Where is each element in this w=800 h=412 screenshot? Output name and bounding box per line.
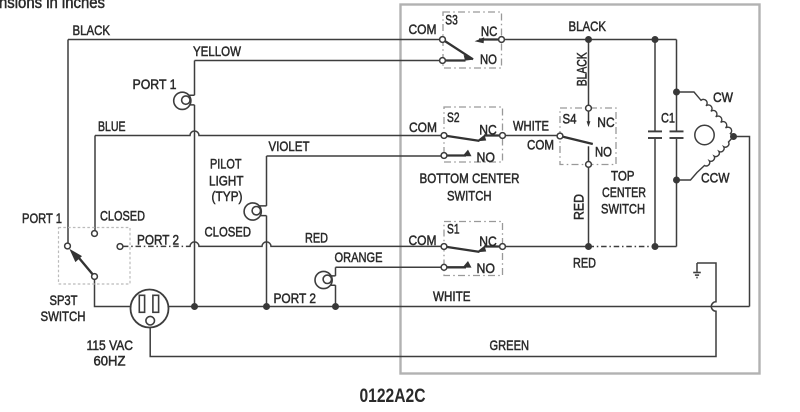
- svg-text:BLACK: BLACK: [73, 22, 111, 38]
- wire RED dashed between junctions: [589, 246, 656, 248]
- svg-text:PORT 2: PORT 2: [274, 290, 317, 306]
- wire VIOLET horizontal: [267, 155, 445, 157]
- power plug 115VAC symbol: [131, 290, 169, 328]
- junction dot CW tap: [673, 89, 680, 96]
- wire RED row solid with hops: [187, 242, 444, 247]
- svg-text:C1: C1: [661, 110, 675, 126]
- svg-text:PORT 1: PORT 1: [133, 76, 177, 92]
- wire BLACK top-left horizontal: [68, 39, 443, 41]
- wire RED row dashed from PORT 2: [123, 245, 187, 247]
- wire plug stub right internal: [159, 306, 169, 308]
- switch S1 NO blade with arrow: [444, 266, 466, 268]
- port 1 connector symbol: [174, 92, 195, 109]
- junction dot yellow/white: [191, 303, 198, 310]
- contact S2 lower-left: [441, 153, 447, 159]
- svg-text:S1: S1: [447, 221, 460, 237]
- frame border: [401, 5, 760, 374]
- junction dot port2lamp/white: [332, 303, 339, 310]
- svg-text:LIGHT: LIGHT: [209, 172, 244, 188]
- wire capacitor branch 2 lower: [676, 139, 678, 247]
- junction dot motor common vertex: [730, 133, 737, 140]
- svg-text:BOTTOM CENTER: BOTTOM CENTER: [420, 170, 520, 186]
- svg-text:NO: NO: [480, 51, 497, 67]
- switch S1 dashed box: [444, 222, 503, 276]
- contact S4 NC top: [586, 105, 592, 111]
- switch S2 dashed box: [444, 107, 503, 162]
- svg-text:RED: RED: [573, 254, 596, 270]
- svg-text:S4: S4: [563, 111, 577, 127]
- ground symbol: [693, 263, 701, 278]
- SP3T switch arm with arrowhead: [79, 258, 95, 277]
- wire RED horizontal to capacitor corner: [655, 246, 677, 248]
- switch S1 arm: [444, 247, 480, 252]
- pilot light symbol: [244, 203, 266, 220]
- svg-text:GREEN: GREEN: [490, 337, 530, 353]
- svg-text:NO: NO: [595, 144, 612, 160]
- svg-text:CW: CW: [713, 89, 734, 105]
- svg-text:(TYP): (TYP): [212, 188, 243, 204]
- wire capacitor branch 1 upper: [654, 40, 656, 131]
- contact S3 COM: [440, 37, 446, 43]
- junction dot black/S4NC: [585, 36, 592, 43]
- wire yellow feed vertical upper (to port 1): [194, 61, 196, 96]
- svg-text:NC: NC: [481, 23, 498, 39]
- svg-text:RED: RED: [571, 194, 587, 220]
- svg-text:SWITCH: SWITCH: [601, 201, 645, 217]
- wire capacitor branch 2 upper: [676, 40, 678, 131]
- svg-text:nsions in inches: nsions in inches: [0, 0, 105, 12]
- wire violet vertical upper (to pilot light): [266, 156, 268, 206]
- svg-text:NC: NC: [479, 233, 497, 249]
- contact S3 NC: [499, 37, 505, 43]
- svg-text:YELLOW: YELLOW: [193, 43, 242, 59]
- contact S2 NC: [500, 133, 506, 139]
- junction dot red/cap1: [652, 243, 659, 250]
- switch S3 dashed box: [443, 12, 502, 68]
- svg-text:NO: NO: [477, 260, 496, 276]
- capacitor C1 plates: [648, 131, 684, 138]
- junction dot CCW tap: [673, 177, 680, 184]
- switch S4 dashed box: [560, 108, 616, 165]
- wire GREEN from plug ground: [150, 263, 716, 357]
- svg-text:CCW: CCW: [701, 170, 730, 186]
- svg-text:BLACK: BLACK: [569, 18, 607, 34]
- svg-text:CENTER: CENTER: [602, 184, 646, 200]
- switch S2 NO blade with arrow: [444, 154, 466, 156]
- contact S2 COM: [441, 133, 447, 139]
- switch S3 arm: [443, 40, 474, 60]
- svg-text:RED: RED: [305, 230, 328, 246]
- svg-text:COM: COM: [409, 119, 437, 135]
- svg-text:SP3T: SP3T: [50, 292, 78, 308]
- inductor CCW winding: [677, 137, 734, 181]
- inductor CW winding: [677, 92, 734, 137]
- contact S4 COM: [557, 133, 563, 139]
- svg-text:COM: COM: [409, 21, 437, 37]
- svg-text:PORT 2: PORT 2: [137, 231, 179, 247]
- wire capacitor branch 1 lower: [654, 139, 656, 247]
- switch S2 NC blade with arrow: [484, 134, 503, 136]
- svg-text:0122A2C: 0122A2C: [360, 386, 426, 407]
- contact SP3T pole: [92, 274, 98, 280]
- SP3T switch dotted box: [59, 228, 131, 285]
- switch S3 NO blade with arrow: [443, 59, 466, 61]
- wire YELLOW horizontal: [195, 60, 443, 62]
- contact S1 NC: [500, 244, 506, 250]
- wire ORANGE horizontal: [336, 266, 445, 268]
- wire plug stub left internal: [131, 306, 140, 308]
- svg-text:SWITCH: SWITCH: [447, 187, 492, 203]
- svg-text:CLOSED: CLOSED: [205, 224, 252, 240]
- junction dot pilot/white: [263, 303, 270, 310]
- switch S1 NC blade with arrow: [484, 245, 503, 247]
- switch S4 NC blade vertical: [588, 111, 590, 122]
- svg-text:COM: COM: [409, 232, 437, 248]
- svg-text:PILOT: PILOT: [210, 156, 242, 172]
- svg-text:NO: NO: [477, 149, 496, 165]
- svg-text:S3: S3: [445, 11, 458, 27]
- contact S1 COM: [441, 244, 447, 250]
- svg-text:BLACK: BLACK: [573, 52, 589, 86]
- svg-text:CLOSED: CLOSED: [100, 208, 145, 224]
- contact S4 NO bottom: [586, 162, 592, 168]
- contact S1 lower-left: [441, 264, 447, 270]
- junction dot black/cap1: [652, 36, 659, 43]
- wire SP3T pole to plug: [95, 279, 131, 306]
- junction dot red/S4NO: [585, 243, 592, 250]
- svg-text:COM: COM: [527, 137, 554, 153]
- svg-text:S2: S2: [447, 109, 460, 125]
- contact SP3T CLOSED: [92, 231, 98, 237]
- wire BLUE horizontal with hop: [95, 131, 444, 136]
- switch S4 arm: [560, 136, 593, 144]
- wire RED horizontal inside frame (solid left): [503, 246, 589, 248]
- wire port 2 lamp vertical lower: [335, 285, 337, 306]
- svg-text:PORT 1: PORT 1: [22, 210, 62, 226]
- wire pilot light vertical lower: [266, 216, 268, 307]
- wire yellow feed vertical lower (port 1 to white bus): [194, 105, 196, 307]
- wire WHITE between S2 and S4: [503, 135, 561, 137]
- svg-text:NC: NC: [597, 114, 614, 130]
- wire BLUE vertical to CLOSED contact: [94, 136, 96, 231]
- svg-text:WHITE: WHITE: [513, 118, 549, 134]
- port 2 lamp symbol: [315, 271, 336, 288]
- svg-text:VIOLET: VIOLET: [269, 138, 310, 154]
- contact SP3T PORT 2: [117, 244, 123, 250]
- contact S3 lower-left: [440, 58, 446, 64]
- svg-text:60HZ: 60HZ: [94, 352, 126, 368]
- svg-text:SWITCH: SWITCH: [41, 308, 86, 324]
- svg-text:TOP: TOP: [611, 167, 635, 183]
- svg-text:WHITE: WHITE: [433, 288, 471, 304]
- svg-text:115 VAC: 115 VAC: [87, 337, 134, 353]
- svg-text:ORANGE: ORANGE: [335, 249, 383, 265]
- wire RED vertical from S4 NO: [588, 167, 590, 246]
- wire BLACK vertical drop to S4 NC: [588, 40, 590, 106]
- wire motor common to white bus: [734, 137, 750, 307]
- svg-text:BLUE: BLUE: [98, 118, 126, 134]
- motor rotor circle: [695, 125, 714, 144]
- switch S4 NO blade vertical: [588, 146, 590, 162]
- switch S3 NC blade with arrow: [479, 38, 502, 40]
- wire BLACK top-right horizontal: [502, 39, 677, 41]
- contact SP3T PORT 1: [65, 243, 71, 249]
- switch S2 arm: [444, 136, 480, 141]
- wire WHITE long bus: [168, 306, 749, 308]
- svg-text:NC: NC: [479, 122, 497, 138]
- wire orange vertical upper (to port 2 lamp): [335, 267, 337, 276]
- wire BLACK left vertical to PORT 1 contact: [67, 40, 69, 244]
